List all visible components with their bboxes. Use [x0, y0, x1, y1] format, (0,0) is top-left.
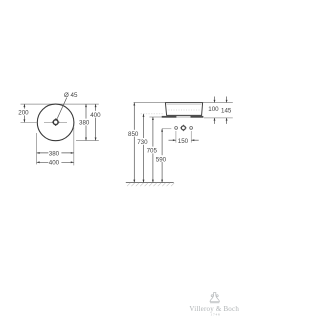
dimension 400 (right vertical): [90, 104, 103, 140]
leader line Ø 45: [56, 92, 78, 121]
basin circle (top view): [37, 104, 74, 141]
extension line under basin (730): [141, 113, 163, 115]
svg-text:590: 590: [156, 156, 167, 163]
svg-text:380: 380: [79, 120, 90, 127]
fixing hole left: [175, 127, 178, 130]
svg-text:Ø 45: Ø 45: [64, 92, 78, 99]
fixing hole right: [190, 127, 193, 130]
dimension 850: [128, 103, 141, 183]
svg-text:1748: 1748: [211, 313, 221, 317]
svg-text:380: 380: [49, 150, 60, 157]
side view top extension line: [134, 102, 233, 104]
extension line for 590: [162, 128, 171, 130]
top extension line (top view tangent): [21, 103, 99, 105]
svg-text:145: 145: [221, 108, 232, 115]
dimension 150: [169, 131, 199, 145]
Villeroy & Boch logo jug icon: [210, 293, 219, 303]
dimension 380 (bottom horizontal): [37, 150, 74, 158]
svg-text:200: 200: [18, 110, 29, 117]
counter line: [149, 116, 204, 118]
dimension 200 (left vertical): [18, 104, 31, 122]
dimension 145 (right): [221, 97, 232, 124]
svg-text:150: 150: [178, 138, 189, 145]
centre line dashes inside circle: [44, 121, 52, 123]
bottom extension lines (top view): [37, 127, 74, 166]
basin body (side view): [165, 103, 202, 116]
svg-text:100: 100: [208, 106, 219, 113]
svg-text:730: 730: [137, 139, 148, 146]
right bottom extension line (top view): [76, 140, 99, 142]
floor hatching: [127, 183, 174, 186]
svg-text:705: 705: [147, 148, 158, 155]
svg-text:400: 400: [49, 160, 60, 167]
mounting pads: [162, 116, 177, 118]
dimension 380 (right vertical): [79, 104, 92, 140]
dimension 730: [137, 114, 150, 183]
tap hole symbol: [52, 118, 60, 126]
horizontal center line: [21, 121, 37, 123]
dimension 400 (bottom horizontal): [37, 159, 74, 167]
floor line: [126, 182, 174, 184]
dimension 100 (right): [208, 97, 219, 124]
tap hole (side view centre): [180, 125, 186, 131]
svg-text:400: 400: [90, 112, 101, 119]
svg-text:850: 850: [128, 131, 139, 138]
dimension 705: [146, 117, 159, 183]
dimension 590: [156, 129, 169, 183]
